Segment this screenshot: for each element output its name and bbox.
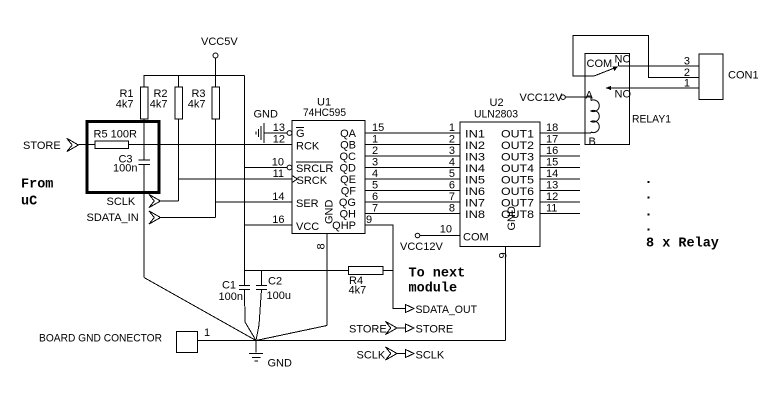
svg-text:QD: QD (340, 163, 357, 175)
svg-text:VCC12V: VCC12V (400, 241, 443, 253)
wires U1 outputs to U2 inputs (365, 133, 460, 214)
svg-text:4: 4 (372, 168, 378, 180)
svg-text:SRCLR: SRCLR (296, 163, 333, 175)
wire OUT7 (540, 201, 580, 203)
svg-text:R5 100R: R5 100R (94, 129, 137, 141)
U1 output pin numbers (366, 122, 384, 226)
svg-text:18: 18 (546, 122, 558, 134)
resistor R4 (349, 267, 394, 297)
svg-text:8: 8 (316, 243, 328, 249)
wire C3 diagonal to ground (144, 278, 256, 341)
svg-text:STORE: STORE (349, 324, 387, 336)
svg-text:SCLK: SCLK (107, 196, 136, 208)
svg-text:7: 7 (449, 191, 455, 203)
resistor R5 (94, 129, 137, 149)
resistor R3 (188, 76, 220, 218)
svg-text:14: 14 (546, 168, 558, 180)
svg-text:100n: 100n (219, 291, 243, 303)
svg-text:1: 1 (449, 122, 455, 134)
port SDATA_IN input (87, 211, 216, 224)
svg-text:VCC5V: VCC5V (201, 36, 238, 48)
wire U1 pin8 diagonal to ground (256, 326, 327, 341)
relay coil (585, 90, 599, 149)
svg-text:SRCK: SRCK (297, 175, 328, 187)
svg-text:C1: C1 (222, 280, 236, 292)
svg-text:OUT4: OUT4 (501, 163, 534, 175)
U1 overline G (296, 127, 304, 129)
U1 left pin numbers (272, 122, 285, 226)
svg-text:13: 13 (273, 122, 285, 134)
svg-text:100u: 100u (267, 290, 291, 302)
transistor-array U2 ULN2803 box (460, 97, 540, 247)
wire COM loop to CON1 pin2 (573, 36, 699, 78)
svg-text:QF: QF (341, 186, 357, 198)
wire VCC vertical to rail (244, 76, 246, 271)
power VCC5V (201, 36, 238, 76)
svg-text:QA: QA (340, 128, 357, 140)
svg-text:3: 3 (684, 56, 690, 68)
svg-text:QHP: QHP (332, 220, 356, 232)
svg-text:ULN2803: ULN2803 (474, 109, 518, 121)
svg-text:QB: QB (340, 140, 356, 152)
svg-text:NO: NO (615, 89, 632, 101)
svg-text:2: 2 (449, 134, 455, 146)
svg-text:6: 6 (449, 180, 455, 192)
svg-text:5: 5 (449, 168, 455, 180)
relay RELAY1 (585, 54, 671, 145)
wire OUT6 (540, 190, 580, 192)
port STORE daisy-chain (349, 321, 453, 335)
resistor R1 (116, 76, 148, 145)
svg-text:IN1: IN1 (465, 129, 485, 141)
svg-text:GND: GND (324, 200, 336, 225)
svg-text:4k7: 4k7 (188, 99, 206, 111)
svg-text:IN2: IN2 (465, 140, 485, 152)
CON1 pin numbers (684, 56, 690, 90)
wire QHP to SDATA_OUT (365, 225, 405, 309)
svg-text:15: 15 (546, 157, 558, 169)
relay NO contact (606, 86, 632, 101)
svg-text:6: 6 (372, 191, 378, 203)
wire ground rail (198, 340, 506, 342)
wire OUT3 (540, 155, 580, 157)
svg-text:SCLK: SCLK (357, 350, 386, 362)
svg-text:COM: COM (463, 232, 489, 244)
svg-text:8: 8 (449, 203, 455, 215)
svg-text:U2: U2 (490, 97, 504, 109)
annotation To next module (409, 267, 466, 297)
U1 clock triangle pin11 (292, 176, 298, 183)
svg-text:SDATA_OUT: SDATA_OUT (416, 304, 478, 316)
svg-text:2: 2 (372, 145, 378, 157)
svg-text:12: 12 (546, 191, 558, 203)
U1 pin8 GND wire (316, 234, 328, 326)
svg-text:QC: QC (340, 151, 357, 163)
svg-text:STORE: STORE (416, 324, 454, 336)
ground symbol (249, 341, 292, 370)
wire VCC rail to R4 (245, 270, 349, 272)
port SCLK input (107, 194, 179, 208)
svg-text:CON1: CON1 (728, 70, 759, 82)
svg-text:100n: 100n (113, 163, 137, 175)
wire OUT5 (540, 178, 580, 180)
svg-text:QG: QG (339, 197, 356, 209)
svg-text:5: 5 (372, 180, 378, 192)
svg-text:13: 13 (546, 180, 558, 192)
ground symbol at U1 pin13 (254, 109, 288, 144)
capacitor C1 (219, 271, 257, 341)
svg-text:OUT6: OUT6 (501, 186, 534, 198)
relay COM contact (585, 58, 618, 76)
svg-text:uC: uC (21, 195, 37, 210)
svg-text:To next: To next (409, 267, 466, 282)
U1 overline SRCLR (296, 161, 333, 163)
U2 left pin labels (463, 129, 489, 244)
svg-text:GND: GND (506, 206, 518, 231)
U2 pin9 GND wire (498, 247, 510, 341)
svg-text:NC: NC (615, 54, 631, 66)
capacitor C2 (256, 271, 291, 341)
svg-text:RCK: RCK (296, 141, 320, 153)
svg-text:9: 9 (366, 214, 372, 226)
svg-text:COM: COM (587, 58, 613, 70)
svg-text:STORE: STORE (23, 140, 61, 152)
wire OUT1 to relay coil (540, 132, 585, 134)
svg-text:4k7: 4k7 (150, 99, 168, 111)
svg-text:module: module (409, 282, 458, 297)
svg-text:4k7: 4k7 (116, 99, 134, 111)
power VCC12V at COM (400, 233, 460, 253)
svg-text:1: 1 (372, 134, 378, 146)
svg-text:IN6: IN6 (465, 186, 485, 198)
svg-text:IN5: IN5 (465, 175, 485, 187)
svg-text:GND: GND (268, 358, 293, 370)
wire SER pin14 (216, 201, 293, 203)
svg-text:11: 11 (546, 203, 557, 215)
svg-text:OUT5: OUT5 (501, 175, 534, 187)
svg-text:C2: C2 (268, 276, 282, 288)
U1 left pin labels (296, 128, 333, 233)
svg-text:GND: GND (254, 109, 279, 121)
wire VCC bus (144, 75, 245, 77)
svg-text:OUT2: OUT2 (501, 140, 534, 152)
U2 input pin numbers (449, 122, 455, 215)
power VCC12V at relay coil (520, 92, 586, 104)
svg-text:G: G (296, 128, 305, 140)
wire NO to CON1 pin1 (606, 87, 699, 89)
svg-text:4: 4 (449, 157, 455, 169)
svg-text:RELAY1: RELAY1 (632, 114, 671, 126)
svg-text:15: 15 (372, 122, 384, 134)
svg-text:BOARD GND CONECTOR: BOARD GND CONECTOR (39, 333, 162, 345)
wire OUT4 (540, 167, 580, 169)
U1 right pin labels (332, 128, 356, 232)
svg-text:OUT3: OUT3 (501, 152, 534, 164)
wire OUT8 (540, 213, 580, 215)
U1 pin10 bubble (287, 165, 292, 170)
wire SRCLR pin10 tied to VCC (245, 167, 288, 169)
svg-text:SDATA_IN: SDATA_IN (87, 212, 139, 224)
svg-text:16: 16 (272, 214, 284, 226)
svg-text:VCC12V: VCC12V (520, 92, 563, 104)
port STORE input (23, 138, 95, 152)
port SDATA_OUT (405, 304, 477, 316)
svg-text:7: 7 (372, 203, 378, 215)
U2 right pin numbers (546, 122, 558, 215)
svg-text:IN4: IN4 (465, 163, 485, 175)
svg-text:4k7: 4k7 (349, 285, 367, 297)
port SCLK daisy-chain (357, 347, 445, 362)
svg-text:VCC: VCC (296, 221, 319, 233)
svg-text:OUT1: OUT1 (501, 129, 534, 141)
svg-text:9: 9 (498, 252, 510, 258)
annotation 8 x Relay with dots (646, 181, 719, 252)
U2 right pin labels (501, 129, 534, 222)
svg-text:14: 14 (272, 191, 284, 203)
wire SRCK pin11 (179, 178, 293, 180)
svg-text:3: 3 (449, 145, 455, 157)
highlight box (thick) (87, 122, 159, 193)
op-amp U1 74HC595 box (292, 97, 365, 234)
wire STORE line to U1 RCK (129, 144, 293, 146)
U1 pin13 bubble (287, 131, 292, 136)
svg-text:B: B (589, 136, 596, 148)
svg-text:10: 10 (272, 157, 284, 169)
svg-text:74HC595: 74HC595 (303, 107, 346, 119)
wire VCC pin16 (245, 224, 293, 226)
svg-text:SCLK: SCLK (416, 350, 445, 362)
wire OUT2 (540, 144, 580, 146)
connector CON1 (699, 54, 759, 100)
svg-text:12: 12 (273, 134, 285, 146)
capacitor C3 (113, 145, 150, 278)
svg-text:QE: QE (340, 174, 356, 186)
svg-text:IN8: IN8 (465, 209, 485, 221)
svg-text:1: 1 (204, 327, 210, 339)
svg-text:10: 10 (440, 224, 452, 236)
svg-text:17: 17 (546, 134, 558, 146)
wire NC to CON1 pin3 (619, 65, 700, 67)
svg-text:SER: SER (296, 198, 319, 210)
svg-text:IN3: IN3 (465, 152, 485, 164)
svg-text:3: 3 (372, 157, 378, 169)
resistor R2 (150, 76, 183, 202)
svg-text:QH: QH (340, 209, 357, 221)
svg-text:16: 16 (546, 145, 558, 157)
connector BOARD GND (39, 327, 210, 353)
relay NC contact (615, 54, 631, 67)
annotation From uC (21, 178, 53, 210)
svg-text:IN7: IN7 (465, 198, 485, 210)
svg-text:8 x Relay: 8 x Relay (646, 237, 719, 252)
svg-text:From: From (21, 178, 53, 193)
svg-text:11: 11 (273, 168, 284, 180)
svg-text:1: 1 (684, 78, 690, 90)
